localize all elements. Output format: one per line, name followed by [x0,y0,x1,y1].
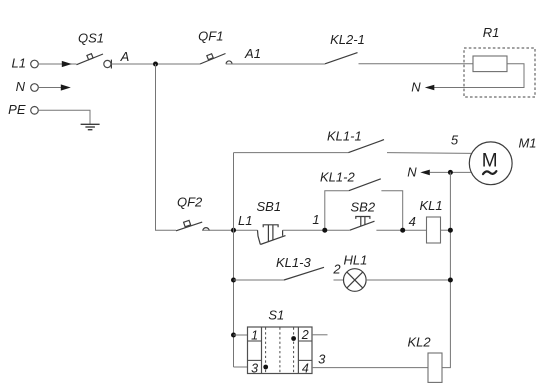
svg-text:4: 4 [409,214,416,229]
contact KL2-1 [325,32,365,64]
wire motor to N arrow [430,171,471,173]
wire R1 return to N [433,64,524,88]
svg-text:4: 4 [302,362,309,376]
circuit breaker QF2 [176,194,209,231]
motor M1 [469,136,536,185]
resistor R1 [473,25,507,72]
pushbutton SB1 (NC) [257,199,286,245]
svg-text:3: 3 [318,352,326,367]
wire KL1-3 to HL1 [334,279,344,281]
svg-text:KL1-2: KL1-2 [320,170,355,185]
terminal N [16,79,39,94]
wire bus A down [156,64,177,230]
node L1 (control) [231,228,236,233]
svg-text:M1: M1 [518,136,536,151]
wire S1 pin4 to KL2 (net 3) [312,367,428,369]
wire QF2 to SB1 [202,229,257,231]
wire S1 pin2 stub [312,334,328,336]
wire KL1-1 to motor [387,152,472,155]
svg-text:2: 2 [301,328,309,342]
terminal L1 [12,56,39,71]
node 4 [400,228,405,233]
contact KL1-2 [320,170,403,231]
svg-text:KL1: KL1 [420,198,443,213]
svg-text:KL2-1: KL2-1 [330,32,365,47]
wire HL1 to bus [366,279,450,281]
wire KL2-1 to R1 [359,63,474,65]
wire L1 to QS1 [38,63,76,65]
svg-text:HL1: HL1 [344,252,368,267]
contact KL1-3 [276,255,324,280]
svg-text:A1: A1 [244,46,261,61]
svg-text:3: 3 [251,361,258,375]
lamp HL1 [344,252,368,291]
svg-text:M: M [482,151,498,172]
svg-text:PE: PE [8,102,26,117]
circuit breaker QF1 [198,28,232,64]
arrow on N wire [61,84,71,90]
wire N stub [38,87,63,89]
junction N bus [448,170,453,175]
svg-text:SB1: SB1 [257,199,282,214]
svg-text:L1: L1 [238,213,252,228]
terminal PE [8,102,38,117]
wire bus to S1 pin3 [234,366,248,368]
arrow N (motor) [420,170,430,176]
svg-text:KL2: KL2 [408,334,432,349]
svg-text:5: 5 [451,133,459,148]
junction KL1 bus [448,228,453,233]
wire KL1-1 row left [234,152,349,154]
wire right bus [442,172,450,367]
svg-text:L1: L1 [12,56,26,71]
wire KL1 to bus [441,229,451,231]
node 1 [322,228,327,233]
junction KL1-3 row left [231,278,236,283]
svg-text:N: N [407,164,417,179]
svg-text:N: N [411,79,421,94]
wire bus to S1 pin1 [234,334,248,336]
svg-text:KL1-1: KL1-1 [327,129,362,144]
svg-text:A: A [120,49,130,64]
disconnector QS1 [77,31,112,69]
junction HL1 bus [448,278,453,283]
wire SB2 to KL1 [376,229,426,231]
svg-text:1: 1 [251,328,258,342]
switch S1 [248,307,313,375]
wire KL1-3 row [234,279,285,281]
svg-text:SB2: SB2 [351,200,376,215]
svg-text:1: 1 [312,212,319,227]
relay coil KL2 [408,334,443,382]
ground [81,124,100,129]
svg-text:QF2: QF2 [177,194,203,209]
dashed enclosure R1 [464,48,535,97]
svg-text:N: N [16,79,26,94]
junction S1 row left [231,333,236,338]
arrow on L1 wire [62,61,72,67]
contact KL1-1 [327,129,384,153]
pushbutton SB2 (NO) [350,200,376,231]
svg-text:R1: R1 [483,25,500,40]
svg-text:2: 2 [332,262,341,277]
svg-text:QS1: QS1 [78,31,104,46]
wire SB1 to SB2 [283,229,350,231]
wire QF1 to KL2-1 [226,63,325,65]
wire PE to ground [38,110,90,124]
relay coil KL1 [420,198,443,243]
junction at A bus [153,62,158,67]
svg-text:QF1: QF1 [198,28,223,43]
wire A to QF1 [111,63,200,65]
wire left bus [233,153,235,367]
svg-text:S1: S1 [268,307,284,322]
svg-text:KL1-3: KL1-3 [276,255,311,270]
arrow N return [425,85,435,91]
